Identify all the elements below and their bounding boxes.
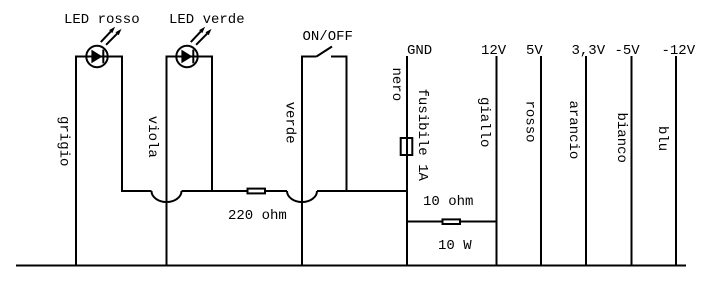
LED D1 rosso arrow 2 (106, 34, 117, 45)
wire verde (bus to switch left, passes hop) (301, 57, 303, 266)
wire hop over verde (287, 191, 317, 202)
svg-text:viola: viola (144, 116, 160, 158)
wire LED rosso cathode down (121, 56, 123, 193)
switch S1 left stub (301, 56, 317, 58)
svg-text:rosso: rosso (522, 101, 538, 143)
LED D1 rosso circle (86, 46, 107, 67)
wire arancio 3,3V (585, 56, 587, 266)
LED D2 verde triangle (181, 50, 192, 64)
svg-text:5V: 5V (526, 43, 543, 59)
svg-text:LED rosso: LED rosso (64, 12, 140, 28)
resistor R1 220 ohm body (248, 189, 266, 194)
wire horizontal verde hop to nero (317, 190, 408, 192)
svg-text:blu: blu (654, 126, 670, 151)
svg-text:bianco: bianco (613, 113, 629, 163)
svg-text:fusibile 1A: fusibile 1A (414, 89, 430, 182)
wire 10 ohm resistor horizontal nero to giallo (407, 221, 498, 223)
LED D2 verde circle (176, 46, 197, 67)
wire rosso 5V (540, 56, 542, 266)
LED D1 rosso cathode bar (102, 50, 104, 64)
resistor R2 10 ohm body (443, 219, 461, 224)
wire LED verde top horizontal (166, 56, 214, 58)
svg-text:giallo: giallo (476, 97, 492, 147)
wire viola (bus to LED verde anode, passes hop) (166, 57, 168, 266)
svg-text:grigio: grigio (56, 116, 72, 166)
LED D2 verde arrow 1 (191, 32, 201, 42)
fuse F1 body (401, 138, 413, 155)
wire bianco -5V (631, 56, 633, 266)
wire LED verde cathode down (211, 56, 213, 193)
svg-text:ON/OFF: ON/OFF (303, 29, 353, 45)
LED D1 rosso arrow 1 (101, 32, 111, 42)
svg-text:verde: verde (282, 102, 298, 144)
svg-text:arancio: arancio (565, 101, 581, 160)
wire LED rosso top horizontal (75, 56, 123, 58)
switch S1 right stub (331, 56, 348, 58)
svg-text:LED verde: LED verde (169, 12, 245, 28)
svg-text:GND: GND (407, 43, 432, 59)
LED D1 rosso triangle (91, 50, 102, 64)
wire main horizontal from LED rosso to viola hop (122, 190, 152, 192)
LED D2 verde arrow 2 (196, 34, 207, 45)
svg-text:-12V: -12V (662, 43, 696, 59)
svg-text:-5V: -5V (615, 43, 641, 59)
svg-text:nero: nero (388, 68, 404, 102)
wire bottom bus (16, 265, 686, 267)
wire switch right down (346, 56, 348, 193)
wire blu -12V (675, 56, 677, 266)
svg-text:10 ohm: 10 ohm (423, 194, 473, 210)
wire hop over viola (152, 191, 182, 202)
svg-text:220 ohm: 220 ohm (228, 208, 287, 224)
svg-text:3,3V: 3,3V (572, 43, 606, 59)
switch S1 lever (317, 47, 333, 57)
wire giallo 12V (496, 56, 498, 266)
LED D2 verde cathode bar (192, 50, 194, 64)
wire nero (GND to bus, through fuse) (406, 56, 408, 266)
wire horizontal viola hop to verde hop (under R1) (182, 190, 288, 192)
svg-text:12V: 12V (481, 43, 507, 59)
svg-text:10 W: 10 W (438, 238, 472, 254)
wire grigio (bus to LED rosso anode) (75, 57, 77, 266)
